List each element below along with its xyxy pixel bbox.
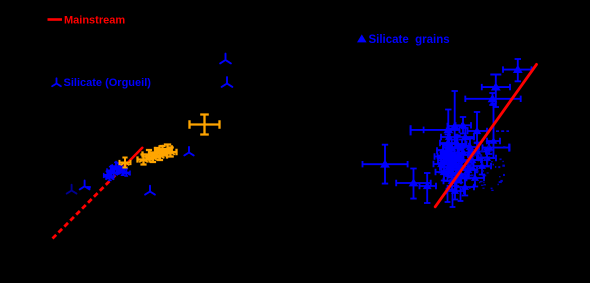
blue silicate cluster point B3 xyxy=(110,169,118,176)
blue point B12 xyxy=(145,186,155,195)
blue silicate cluster point B6 xyxy=(119,168,127,175)
blue silicate cluster point B9 xyxy=(117,165,125,172)
silicate grain point R31 xyxy=(457,179,475,196)
silicate grain point R21 xyxy=(469,143,487,160)
dashed bar fragment right of cluster xyxy=(496,130,509,132)
silicate grain point R17 xyxy=(457,128,475,146)
left legend: mainstream line sample xyxy=(48,18,63,21)
svg-text:Silicate grains: Silicate grains xyxy=(369,34,450,46)
silicate grain point R20 xyxy=(468,112,488,143)
orange silicate point O2 xyxy=(138,155,150,165)
silicate grain point R8 xyxy=(420,173,437,203)
orange silicate point O7 xyxy=(160,145,172,154)
silicate grain point R24 xyxy=(467,170,485,187)
silicate grain point R30 xyxy=(447,183,465,200)
bottom vertical bars of cluster xyxy=(445,185,464,207)
orange silicate point O8 xyxy=(153,152,167,161)
silicate grain point R36 xyxy=(448,169,466,186)
bold right cap on R9 bar xyxy=(508,144,510,152)
blue silicate cluster point B7 xyxy=(122,169,130,176)
orange silicate point O4 xyxy=(147,153,160,162)
blue point B11 cap xyxy=(87,186,91,188)
silicate grain point R7 xyxy=(396,169,431,199)
silicate grain point R44 xyxy=(456,140,470,153)
silicate grain point R33 xyxy=(449,136,467,153)
silicate grain point R23 xyxy=(460,162,478,179)
silicate grain point R28 xyxy=(474,158,492,175)
orange silicate point O9 xyxy=(164,148,177,157)
silicate grain point R37 xyxy=(437,144,450,157)
silicate grain point R1 xyxy=(503,59,532,81)
silicate grain point R32 xyxy=(441,129,458,146)
blue silicate cluster point B4 xyxy=(112,162,120,169)
silicate grain point R46 xyxy=(446,167,460,180)
orange silicate point O5 xyxy=(150,148,165,157)
silicate grain point R43 xyxy=(449,153,463,166)
blue silicate cluster point B8 xyxy=(106,173,114,180)
silicate grain point R2 xyxy=(482,75,510,108)
silicate grain point R4 xyxy=(411,110,460,149)
blue point B10 (dark) xyxy=(67,185,77,194)
silicate grain point R16 xyxy=(455,144,473,161)
orange silicate point O8 (over blue cluster) xyxy=(120,158,131,168)
silicate grain point R35 xyxy=(440,159,458,176)
silicate grain point R14 xyxy=(445,153,462,170)
silicate grain point R5 xyxy=(448,91,463,144)
right legend: silicate grains marker xyxy=(357,34,367,42)
svg-text:Mainstream: Mainstream xyxy=(64,15,125,27)
silicate grain point R38 xyxy=(441,147,455,160)
blue point B13 xyxy=(184,147,193,155)
blue point B14 xyxy=(220,54,231,64)
silicate grain point R41 xyxy=(435,150,449,163)
silicate grain point R10 xyxy=(440,135,456,152)
orange silicate point O1 xyxy=(190,115,220,135)
solid red fit segment (left panel) xyxy=(121,148,143,170)
silicate grain point R18 xyxy=(456,117,472,134)
blue silicate cluster point B1 xyxy=(104,171,112,178)
mainstream line (solid, right panel) xyxy=(435,64,536,206)
silicate grain point R47 xyxy=(487,104,500,159)
silicate grain point R40 xyxy=(438,154,452,167)
silicate grain point R25 xyxy=(452,166,470,183)
faint grain speckles xyxy=(480,151,482,152)
orange silicate point O3 xyxy=(143,150,156,160)
silicate grain point R15 xyxy=(451,147,469,164)
tall left cap on R4 bar xyxy=(410,125,412,135)
silicate grain point R3 xyxy=(465,93,520,105)
silicate grain point R27 xyxy=(436,164,454,181)
blue silicate cluster point B5 xyxy=(115,164,123,171)
silicate grain point R39 xyxy=(444,151,458,164)
silicate grain point R11 xyxy=(444,140,461,157)
silicate grain point R45 xyxy=(452,164,466,177)
blue point B11 xyxy=(80,181,90,190)
blue point B15 xyxy=(222,77,233,87)
blue silicate cluster point B2 xyxy=(107,167,115,174)
left legend: silicate marker sample xyxy=(52,78,61,86)
silicate grain point R42 xyxy=(443,158,457,171)
silicate grain point R34 xyxy=(453,158,471,175)
svg-text:Silicate (Orgueil): Silicate (Orgueil) xyxy=(64,77,152,89)
silicate grain point R19 xyxy=(462,139,480,156)
silicate grain point R13 xyxy=(434,156,451,173)
wide top cap on R2 point xyxy=(490,74,501,76)
silicate grain point R6 xyxy=(363,145,408,184)
extra cap on R4 bar xyxy=(423,127,425,134)
silicate grain point R12 xyxy=(438,148,456,165)
orange silicate point O6 xyxy=(155,146,170,155)
mainstream line (dashed, left panel) xyxy=(53,169,123,239)
silicate grain point R26 xyxy=(444,173,462,190)
silicate grain point R9 xyxy=(483,142,510,155)
silicate grain point R22 xyxy=(464,152,482,169)
silicate grain point R29 xyxy=(479,150,497,167)
